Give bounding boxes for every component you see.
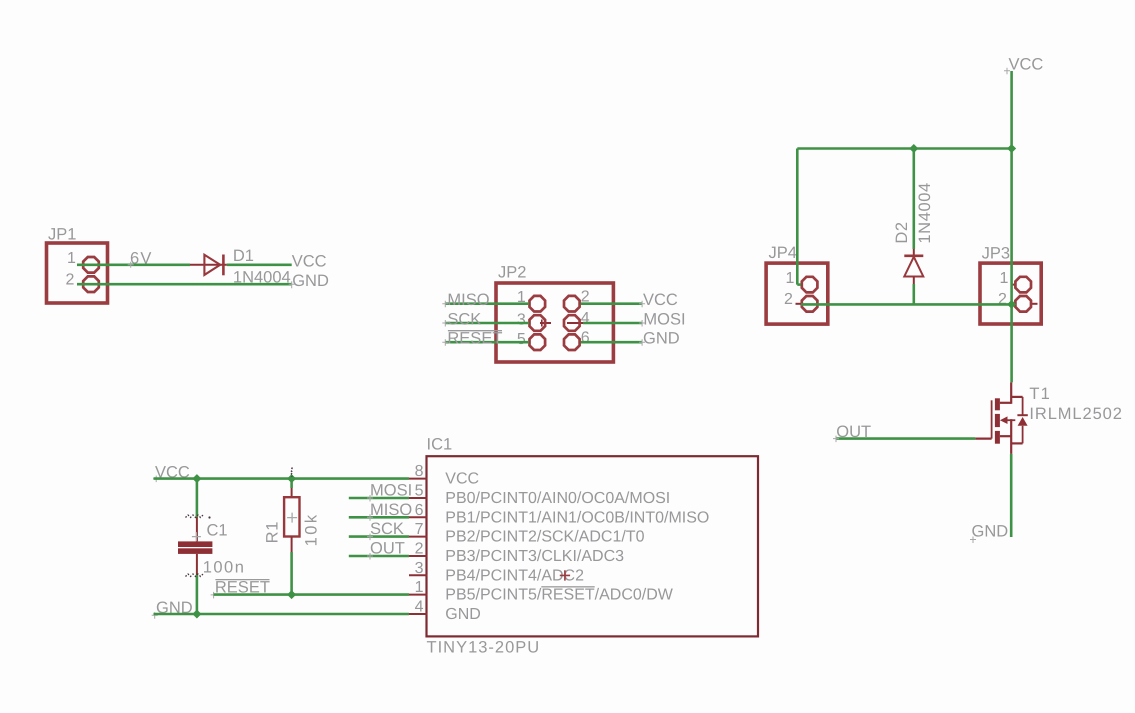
svg-text:4: 4 bbox=[415, 599, 424, 616]
svg-text:OUT: OUT bbox=[836, 423, 871, 441]
drain red lead bbox=[1010, 382, 1012, 403]
svg-text:10k: 10k bbox=[303, 512, 321, 546]
label GND (net, JP2 right) bbox=[639, 330, 680, 348]
IC1 pin 7 PB2 lead bbox=[409, 521, 645, 546]
JP1 pin 1 bbox=[67, 250, 99, 272]
svg-text:GND: GND bbox=[445, 606, 481, 623]
svg-text:VCC: VCC bbox=[643, 291, 678, 309]
label 6V bbox=[128, 249, 153, 268]
IC1 pin 4 GND lead bbox=[409, 599, 481, 624]
svg-text:1: 1 bbox=[415, 579, 424, 596]
substrate arrow bbox=[1003, 419, 1015, 421]
svg-text:MOSI: MOSI bbox=[643, 310, 685, 328]
svg-text:3: 3 bbox=[517, 312, 526, 329]
C1 pin2 connection artifact bbox=[186, 574, 204, 577]
resistor R1 bbox=[284, 479, 299, 552]
svg-text:PB5/PCINT5/RESET/ADC0/DW: PB5/PCINT5/RESET/ADC0/DW bbox=[445, 587, 674, 604]
label SCK (net) bbox=[442, 310, 481, 328]
wire RESET horizontal bbox=[214, 593, 409, 596]
svg-text:6: 6 bbox=[581, 330, 590, 347]
connector JP1 bbox=[47, 226, 108, 304]
IC1 pin 1 PB5 lead bbox=[409, 579, 674, 604]
label RESET (net, left) bbox=[211, 578, 270, 598]
svg-text:MISO: MISO bbox=[447, 291, 489, 309]
label VCC (net, JP2 right) bbox=[639, 291, 678, 309]
JP2 pin 3 bbox=[517, 312, 551, 331]
svg-text:JP1: JP1 bbox=[48, 226, 76, 244]
wire net MISO (JP2 left row1) bbox=[445, 302, 529, 305]
svg-text:R1: R1 bbox=[263, 521, 281, 544]
capacitor C1 bbox=[178, 517, 212, 575]
svg-text:VCC: VCC bbox=[1009, 55, 1044, 73]
IC1 pin 3 PB4 lead bbox=[409, 560, 584, 585]
R1 pin1 connection artifact bbox=[291, 468, 293, 477]
wire net GND (JP2 right row3) bbox=[581, 341, 642, 344]
label MOSI (net, IC) bbox=[367, 482, 412, 502]
wire net MISO stub bbox=[349, 516, 409, 519]
svg-text:3: 3 bbox=[415, 560, 424, 577]
IC1 pin 2 PB3 lead bbox=[409, 541, 624, 566]
wire net OUT stub bbox=[349, 555, 409, 558]
label OUT (net) bbox=[833, 423, 871, 442]
svg-text:1: 1 bbox=[67, 250, 76, 267]
wire stub JP4 pin1 bbox=[797, 283, 801, 286]
wire net MOSI (JP2 right row2) bbox=[583, 322, 642, 325]
junction at D2 top bbox=[909, 144, 918, 153]
JP4 pin 2 bbox=[784, 291, 817, 311]
svg-text:MISO: MISO bbox=[370, 501, 412, 519]
label MOSI (net, JP2 right) bbox=[639, 310, 685, 328]
JP2 pin 6 bbox=[564, 330, 590, 351]
connector JP3 bbox=[980, 245, 1041, 325]
wire net MOSI stub bbox=[349, 497, 409, 500]
label GND (net) bbox=[289, 272, 329, 290]
JP1 pin 2 bbox=[66, 272, 99, 292]
svg-text:D1: D1 bbox=[233, 247, 254, 265]
IC IC1 TINY13-20PU bbox=[427, 436, 759, 637]
svg-text:1: 1 bbox=[786, 270, 795, 287]
svg-text:7: 7 bbox=[415, 521, 424, 538]
JP2 pin 1 bbox=[517, 289, 545, 311]
IC1 pin 5 PB0 lead bbox=[409, 483, 670, 508]
gate plate bbox=[991, 400, 993, 438]
wire net RESET (JP2 left row3) bbox=[445, 341, 529, 344]
svg-text:1N4004: 1N4004 bbox=[916, 182, 934, 243]
wire GND horizontal bbox=[154, 613, 410, 616]
JP2 pin 2 bbox=[564, 289, 590, 312]
label MISO (net, IC) bbox=[367, 501, 412, 521]
connector JP2 bbox=[496, 264, 613, 363]
junction at JP3 pin2 bbox=[1007, 300, 1016, 309]
wire net SCK stub bbox=[349, 535, 409, 538]
wire horizontal JP4 pin2 to JP3 pin2 bbox=[801, 303, 1012, 306]
svg-text:IC1: IC1 bbox=[427, 436, 453, 454]
wire D2 bottom lead bbox=[912, 284, 915, 304]
label MISO (net) bbox=[442, 291, 489, 309]
junction GND/C1 bbox=[192, 609, 201, 618]
svg-text:D2: D2 bbox=[893, 221, 911, 243]
label GND (net, bottom right) bbox=[970, 523, 1008, 544]
svg-text:OUT: OUT bbox=[370, 540, 405, 558]
svg-text:VCC: VCC bbox=[445, 471, 479, 488]
junction VCC/R1 bbox=[287, 474, 296, 483]
svg-text:1N4004: 1N4004 bbox=[233, 269, 291, 287]
wire vertical down to JP4 pin1 bbox=[796, 149, 799, 285]
label GND (net, left) bbox=[152, 599, 193, 619]
svg-text:5: 5 bbox=[517, 331, 526, 348]
wire horizontal VCC to JP4 bbox=[797, 147, 1011, 150]
svg-text:IRLML2502: IRLML2502 bbox=[1029, 405, 1122, 423]
JP3 pin 2 bbox=[998, 291, 1038, 311]
wire R1 bottom to RESET bbox=[290, 552, 293, 595]
svg-text:RESET: RESET bbox=[447, 330, 502, 348]
label OUT (net, IC) bbox=[367, 540, 405, 560]
diode D1 bbox=[190, 255, 227, 276]
wire net 6V pin1 bbox=[77, 263, 190, 266]
label VCC (net, top right) bbox=[1004, 55, 1043, 74]
wire VCC horizontal to IC pin8 bbox=[154, 477, 410, 480]
svg-text:SCK: SCK bbox=[370, 520, 404, 538]
C1 pin1 connection artifact bbox=[186, 515, 204, 518]
wire C1 top bbox=[196, 479, 199, 517]
gate lead bbox=[975, 438, 991, 440]
label RESET (net) bbox=[442, 330, 502, 348]
wire net SCK (JP2 left row2) bbox=[445, 322, 529, 325]
svg-text:4: 4 bbox=[581, 310, 590, 327]
IC1 pin 8 VCC lead bbox=[409, 463, 479, 488]
wire VCC rail vertical bbox=[1010, 71, 1013, 382]
wire net GND pin2 bbox=[77, 283, 292, 286]
body diode bbox=[1022, 397, 1024, 415]
wire net VCC (JP2 right row1) bbox=[581, 302, 642, 305]
svg-text:VCC: VCC bbox=[292, 253, 327, 271]
svg-text:5: 5 bbox=[415, 483, 424, 500]
junction VCC/C1 bbox=[192, 474, 201, 483]
wire T1 source to GND bbox=[1010, 454, 1013, 537]
svg-text:8: 8 bbox=[415, 463, 424, 480]
wire C1 bottom bbox=[196, 575, 199, 614]
svg-text:PB1/PCINT1/AIN1/OC0B/INT0/MISO: PB1/PCINT1/AIN1/OC0B/INT0/MISO bbox=[445, 509, 709, 526]
svg-text:100n: 100n bbox=[203, 558, 246, 576]
connector JP4 bbox=[766, 244, 828, 324]
svg-text:PB2/PCINT2/SCK/ADC1/T0: PB2/PCINT2/SCK/ADC1/T0 bbox=[445, 529, 644, 546]
svg-text:T1: T1 bbox=[1029, 385, 1051, 403]
svg-text:TINY13-20PU: TINY13-20PU bbox=[427, 638, 541, 656]
label VCC (net, left) bbox=[153, 464, 190, 483]
svg-text:1: 1 bbox=[1000, 270, 1009, 287]
svg-text:PB3/PCINT3/CLKI/ADC3: PB3/PCINT3/CLKI/ADC3 bbox=[445, 548, 624, 565]
transistor T1 IRLML2502 bbox=[975, 382, 1027, 454]
svg-text:C1: C1 bbox=[207, 522, 228, 540]
JP4 pin 1 bbox=[786, 270, 818, 292]
svg-text:JP4: JP4 bbox=[769, 244, 797, 262]
channel bars bbox=[995, 398, 1000, 410]
svg-text:MOSI: MOSI bbox=[370, 482, 412, 500]
svg-text:2: 2 bbox=[415, 541, 424, 558]
junction RESET/R1 bbox=[287, 590, 296, 599]
wire net OUT to gate bbox=[836, 437, 975, 440]
JP3 pin 1 bbox=[1000, 270, 1032, 292]
wire net VCC after D1 bbox=[227, 263, 292, 266]
svg-text:2: 2 bbox=[66, 272, 75, 289]
svg-text:2: 2 bbox=[784, 291, 793, 308]
svg-text:GND: GND bbox=[292, 272, 329, 290]
wire D2 top lead bbox=[912, 149, 915, 250]
IC1 pin 6 PB1 lead bbox=[409, 502, 709, 527]
JP2 pin 5 bbox=[517, 331, 545, 350]
svg-text:SCK: SCK bbox=[447, 310, 481, 328]
JP2 pin 4 bbox=[564, 310, 590, 331]
svg-text:PB0/PCINT0/AIN0/OC0A/MOSI: PB0/PCINT0/AIN0/OC0A/MOSI bbox=[445, 490, 670, 507]
label SCK (net, IC) bbox=[367, 520, 404, 540]
svg-text:JP2: JP2 bbox=[498, 264, 526, 282]
svg-text:GND: GND bbox=[643, 330, 680, 348]
svg-text:GND: GND bbox=[972, 523, 1009, 541]
svg-text:6: 6 bbox=[415, 502, 424, 519]
svg-text:JP3: JP3 bbox=[982, 245, 1010, 263]
source connections bbox=[1000, 435, 1011, 437]
junction at VCC rail bbox=[1007, 144, 1016, 153]
diode D2 bbox=[904, 249, 923, 284]
